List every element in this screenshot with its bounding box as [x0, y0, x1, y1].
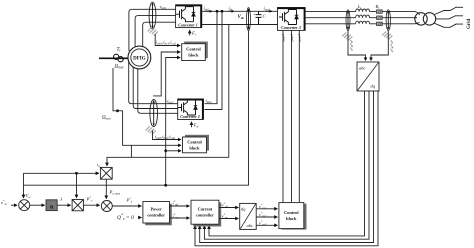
power controller shadow	[145, 204, 172, 226]
wire: grid connection phase 1 with switch	[435, 7, 464, 15]
wire: V_dc to control block 2 input 3	[166, 150, 181, 152]
wire: DC feed down to converter 2 (+)	[205, 11, 218, 103]
svg-text:i*rd: i*rd	[173, 200, 179, 207]
V_dc measurement arrow and sensor	[247, 8, 251, 31]
wire: grid phase 1	[305, 11, 415, 13]
wire: v_ra1* to control block	[256, 208, 277, 210]
converter 1	[176, 5, 202, 28]
svg-text:+: +	[253, 12, 256, 17]
svg-text:Ps_mes: Ps_mes	[109, 190, 121, 196]
svg-text:iab1: iab1	[204, 6, 210, 12]
wire: Q_s* into power controller	[138, 217, 141, 219]
feedback wire 1 from abc-dq to current controller	[209, 91, 365, 236]
wire: grid connection phase 3 with switch	[435, 23, 464, 27]
sensor ellipse on rotor wires	[150, 100, 158, 127]
node: junction on Omega wire	[116, 109, 119, 112]
node: junction on line A	[75, 172, 78, 175]
summing junction 2	[101, 201, 112, 212]
svg-text:vab2: vab2	[167, 99, 174, 105]
svg-text:Converter 2: Converter 2	[180, 114, 199, 119]
svg-text:λ: λ	[60, 197, 63, 202]
wind turbine shaft	[99, 57, 128, 59]
svg-text:Q*s = 0: Q*s = 0	[117, 214, 134, 222]
wire: rotor current measurement to control block 2 input 1	[153, 131, 182, 140]
svg-text:iond: iond	[264, 6, 270, 12]
svg-text:Fond3: Fond3	[297, 33, 301, 42]
svg-text:abc: abc	[247, 223, 253, 228]
wire: stub joining Omega line	[130, 145, 132, 157]
svg-text:Ωmec: Ωmec	[115, 64, 125, 70]
svg-text:DFIG: DFIG	[133, 57, 146, 62]
wire: V_dc measurement long vertical to control block 1 input 3	[166, 58, 181, 186]
svg-text:Fond2: Fond2	[289, 33, 293, 42]
svg-text:controller: controller	[196, 213, 214, 218]
sensor hatch under rotor ellipse	[146, 127, 156, 135]
svg-text:Vw: Vw	[26, 193, 32, 199]
svg-text:n: n	[50, 203, 54, 210]
svg-text:Converter 1: Converter 1	[178, 22, 197, 27]
wire: v_rd* to dq-abc	[219, 207, 239, 209]
wire: i_rq* to current controller	[170, 217, 190, 219]
svg-text:Power: Power	[150, 207, 162, 212]
svg-text:vab1: vab1	[160, 4, 167, 10]
svg-text:Rt: Rt	[375, 4, 380, 10]
sensor hatch under stator ellipse	[148, 28, 158, 36]
svg-text:Tt: Tt	[117, 47, 122, 53]
wire: long feedback line into multiplier B2	[107, 25, 229, 166]
inductor L_t phase 3	[356, 21, 370, 24]
wire: P_s* into power controller	[112, 205, 141, 207]
wire: rotor voltage tap to control block 1 input 2	[153, 52, 180, 96]
control block 1 shadow	[184, 42, 208, 59]
svg-text:Converter 3: Converter 3	[281, 25, 300, 30]
power controller	[143, 202, 170, 224]
control block 2 shadow	[185, 135, 209, 151]
svg-text:P*s: P*s	[126, 197, 133, 204]
wire: P_s_mes into summing junction 2	[105, 179, 107, 198]
current controller shadow	[193, 203, 221, 227]
resistor R_t phase 3	[377, 22, 383, 25]
wire: grid phase 3	[305, 23, 415, 25]
control block 1	[182, 44, 206, 61]
wire: v_ra3* to control block	[256, 224, 277, 226]
current controller	[191, 200, 219, 224]
resistor R_t phase 2	[377, 16, 383, 19]
svg-text:idc: idc	[229, 6, 234, 12]
svg-text:iq: iq	[97, 162, 100, 168]
abc-dq block	[357, 62, 379, 91]
svg-text:Vdc: Vdc	[238, 15, 245, 20]
svg-text:P*v: P*v	[86, 196, 93, 203]
svg-text:Ωmec: Ωmec	[102, 116, 112, 121]
wire: i_rd* to current controller	[170, 205, 190, 207]
converter 3	[278, 8, 306, 31]
wind turbine rotor hub	[114, 54, 119, 59]
node: DC rail junction b	[221, 10, 224, 13]
dq-abc block	[240, 203, 257, 229]
wire: stator current measurement to control block 1	[155, 34, 180, 46]
wire: stator phase a from DFIG to Converter 1	[129, 9, 176, 51]
svg-text:block: block	[189, 146, 200, 151]
wire to gain n	[30, 204, 45, 206]
wire: stator phase c from DFIG to Converter 1	[143, 22, 176, 47]
transformer	[415, 13, 427, 25]
wire: DC bus positive rail	[202, 10, 278, 12]
resistor R_t phase 1	[377, 10, 383, 13]
svg-text:Control: Control	[187, 140, 202, 145]
node: DC rail junction a	[216, 10, 219, 13]
sensor hatch grid right	[382, 32, 392, 40]
wire to multiplier B1	[57, 204, 70, 206]
wire: rotor phase a from DFIG to Converter 2	[129, 60, 178, 104]
svg-text:Control: Control	[284, 210, 299, 215]
wire: DC feed down to converter 2 (-)	[205, 11, 223, 109]
wire: transformer left connections	[415, 12, 420, 24]
wire: V_dc distribution line	[24, 31, 249, 186]
wire: DC bus negative rail	[202, 24, 278, 26]
svg-text:Fond1: Fond1	[281, 33, 285, 42]
svg-text:vta,vtb,vtc: vta,vtb,vtc	[389, 40, 394, 53]
converter 2	[178, 99, 204, 120]
wire: upper reference line A	[24, 172, 99, 174]
svg-text:Control: Control	[186, 47, 201, 52]
svg-text:controller: controller	[147, 213, 165, 218]
generator DFIG	[128, 46, 151, 69]
svg-text:iab2: iab2	[206, 98, 212, 104]
wire: rotor phase c from DFIG to Converter 2	[138, 64, 178, 113]
inductor L_t phase 1	[356, 9, 370, 12]
sensor ellipse grid right	[386, 10, 390, 31]
wire: rotor phase b from DFIG to Converter 2	[133, 62, 178, 109]
svg-text:Fr: Fr	[191, 31, 197, 37]
svg-text:C: C	[263, 14, 267, 19]
sensor ellipse grid left	[346, 10, 350, 31]
control block 2	[183, 137, 207, 153]
summing junction 1	[19, 200, 30, 211]
svg-text:iab1,ibc1,ica1: iab1,ibc1,ica1	[156, 40, 177, 46]
control block 3 shadow	[282, 204, 307, 230]
svg-text:v*w: v*w	[1, 199, 8, 206]
wire: grid connection phase 2 with switch	[436, 16, 463, 19]
svg-text:Fd: Fd	[193, 123, 199, 129]
capacitor C	[256, 11, 262, 24]
wire: v_w into summing junction 1	[11, 204, 17, 206]
multiplier B2	[100, 167, 112, 179]
feedback wire 4 from abc-dq to current controller	[195, 91, 378, 246]
gate signal F_r into converter 1	[189, 30, 191, 35]
gate signal F_d into converter 2	[191, 122, 193, 127]
svg-text:block: block	[188, 53, 199, 58]
wire: v_ra2* to control block	[256, 216, 277, 218]
wire: Omega_mec to control block 2 input 2	[113, 68, 181, 145]
svg-text:block: block	[286, 216, 297, 221]
sensor hatch grid left	[342, 33, 352, 41]
wire: grid current measurement down to abc-dq	[348, 31, 366, 61]
svg-text:Grid: Grid	[467, 19, 472, 29]
sensor ellipse on stator wires	[149, 2, 156, 29]
wire to summing junction 2	[83, 204, 99, 206]
node: junction V_dc line / vertical	[164, 184, 167, 187]
wire: stator phase b from DFIG to Converter 1	[135, 16, 176, 48]
wire: drop into summing junction 1	[23, 173, 25, 198]
svg-text:ita,itb,itc: ita,itb,itc	[348, 40, 353, 52]
control block 3	[279, 203, 304, 229]
feedback wire 3 from abc-dq to current controller	[200, 91, 374, 243]
feedback wire 2 from abc-dq to current controller	[204, 91, 369, 239]
wire: drop into multiplier B1	[76, 173, 78, 198]
gate wires from control block to converter 3	[282, 30, 284, 202]
wire: grid phase 2	[305, 17, 417, 19]
svg-text:abc: abc	[359, 66, 365, 71]
gain block n	[46, 200, 57, 211]
svg-text:Current: Current	[198, 207, 213, 212]
wire: grid voltage measurement down to abc-dq	[371, 31, 388, 61]
multiplier B1	[72, 200, 83, 211]
inductor L_t phase 2	[356, 15, 370, 18]
node: junction V_dc line to control block 2	[164, 149, 167, 152]
wire: v_rq* to dq-abc	[219, 218, 239, 220]
